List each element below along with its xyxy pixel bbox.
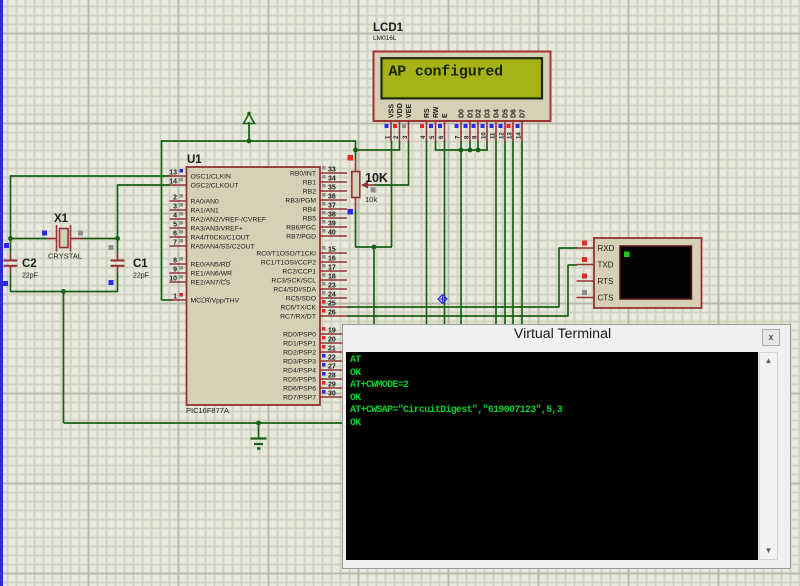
svg-text:14: 14 — [517, 132, 523, 139]
svg-text:37: 37 — [328, 203, 336, 210]
svg-text:5: 5 — [173, 222, 177, 229]
svg-text:D2: D2 — [476, 109, 483, 118]
svg-text:RB5: RB5 — [303, 215, 316, 222]
svg-text:25: 25 — [328, 301, 336, 308]
svg-text:RA0/AN0: RA0/AN0 — [191, 198, 220, 205]
svg-text:D5: D5 — [503, 109, 510, 118]
svg-text:RD3/PSP3: RD3/PSP3 — [283, 358, 316, 365]
svg-text:RB6/PGC: RB6/PGC — [286, 224, 316, 231]
svg-text:D4: D4 — [494, 109, 501, 118]
svg-text:C2: C2 — [22, 258, 37, 270]
svg-text:3: 3 — [173, 204, 177, 211]
svg-text:28: 28 — [328, 373, 336, 380]
svg-text:10: 10 — [482, 132, 488, 139]
svg-text:39: 39 — [328, 221, 336, 228]
svg-text:OSC2/CLKOUT: OSC2/CLKOUT — [191, 182, 239, 189]
svg-text:RB0/INT: RB0/INT — [290, 170, 316, 177]
svg-text:26: 26 — [328, 310, 336, 317]
svg-text:D3: D3 — [485, 109, 492, 118]
svg-text:E: E — [442, 113, 449, 118]
svg-text:18: 18 — [328, 274, 336, 281]
svg-text:RD0/PSP0: RD0/PSP0 — [283, 331, 316, 338]
svg-text:8: 8 — [173, 258, 177, 265]
svg-text:11: 11 — [491, 132, 497, 139]
svg-text:RB3/PGM: RB3/PGM — [285, 197, 316, 204]
svg-text:VSS: VSS — [389, 104, 396, 118]
svg-text:12: 12 — [500, 132, 506, 139]
svg-text:RA3/AN3/VREF+: RA3/AN3/VREF+ — [191, 225, 243, 232]
svg-text:RC3/SCK/SCL: RC3/SCK/SCL — [271, 277, 316, 284]
svg-text:VEE: VEE — [406, 104, 413, 118]
svg-text:PIC16F877A: PIC16F877A — [186, 406, 229, 415]
svg-text:22: 22 — [328, 355, 336, 362]
svg-text:RC7/RX/DT: RC7/RX/DT — [280, 313, 316, 320]
svg-text:23: 23 — [328, 283, 336, 290]
svg-text:D1: D1 — [468, 109, 475, 118]
svg-text:VDD: VDD — [397, 103, 404, 118]
svg-text:RD1/PSP1: RD1/PSP1 — [283, 340, 316, 347]
svg-text:OSC1/CLKIN: OSC1/CLKIN — [191, 173, 232, 180]
svg-text:RC5/SDO: RC5/SDO — [286, 295, 316, 302]
svg-text:RC4/SDI/SDA: RC4/SDI/SDA — [273, 286, 316, 293]
svg-text:RA4/T0CKI/C1OUT: RA4/T0CKI/C1OUT — [191, 234, 250, 241]
svg-text:D7: D7 — [520, 109, 527, 118]
svg-text:RB7/PGD: RB7/PGD — [286, 233, 316, 240]
svg-text:13: 13 — [508, 132, 514, 139]
svg-text:RE0/AN5/RD: RE0/AN5/RD — [191, 261, 231, 268]
svg-text:X1: X1 — [54, 213, 69, 225]
svg-text:15: 15 — [328, 247, 336, 254]
svg-text:35: 35 — [328, 185, 336, 192]
svg-text:RC1/T1OSI/CCP2: RC1/T1OSI/CCP2 — [261, 259, 316, 266]
svg-text:17: 17 — [328, 265, 336, 272]
svg-text:33: 33 — [328, 167, 336, 174]
svg-text:RB1: RB1 — [303, 179, 316, 186]
svg-text:22pF: 22pF — [22, 273, 38, 280]
svg-text:34: 34 — [328, 176, 336, 183]
svg-text:1: 1 — [173, 294, 177, 301]
svg-text:9: 9 — [173, 267, 177, 274]
svg-text:D0: D0 — [459, 109, 466, 118]
svg-text:RA1/AN1: RA1/AN1 — [191, 207, 220, 214]
svg-text:AP configured: AP configured — [389, 64, 503, 81]
svg-text:20: 20 — [328, 337, 336, 344]
svg-text:2: 2 — [173, 195, 177, 202]
svg-text:6: 6 — [173, 231, 177, 238]
svg-text:RC2/CCP1: RC2/CCP1 — [282, 268, 316, 275]
svg-text:RS: RS — [424, 108, 431, 118]
svg-text:CTS: CTS — [598, 293, 614, 302]
svg-text:U1: U1 — [187, 154, 202, 166]
svg-text:21: 21 — [328, 346, 336, 353]
svg-text:10K: 10K — [365, 171, 388, 185]
svg-text:30: 30 — [328, 391, 336, 398]
svg-text:27: 27 — [328, 364, 336, 371]
svg-text:16: 16 — [328, 256, 336, 263]
svg-text:CRYSTAL: CRYSTAL — [48, 252, 82, 261]
svg-text:24: 24 — [328, 292, 336, 299]
svg-text:D6: D6 — [511, 109, 518, 118]
svg-text:10: 10 — [169, 276, 177, 283]
svg-text:LM016L: LM016L — [373, 35, 397, 42]
svg-text:40: 40 — [328, 230, 336, 237]
svg-text:RE1/AN6/WR: RE1/AN6/WR — [191, 270, 233, 277]
svg-text:38: 38 — [328, 212, 336, 219]
svg-text:36: 36 — [328, 194, 336, 201]
svg-text:29: 29 — [328, 382, 336, 389]
svg-text:RTS: RTS — [598, 277, 614, 286]
svg-text:RB2: RB2 — [303, 188, 316, 195]
svg-text:19: 19 — [328, 328, 336, 335]
svg-text:4: 4 — [173, 213, 177, 220]
svg-text:RW: RW — [433, 106, 440, 118]
svg-text:RD6/PSP6: RD6/PSP6 — [283, 385, 316, 392]
svg-text:RE2/AN7/CS: RE2/AN7/CS — [191, 279, 231, 286]
svg-text:RD2/PSP2: RD2/PSP2 — [283, 349, 316, 356]
svg-text:RC0/T1OSO/T1CKI: RC0/T1OSO/T1CKI — [256, 250, 316, 257]
svg-text:10k: 10k — [365, 195, 377, 204]
svg-text:14: 14 — [169, 179, 177, 186]
svg-text:RD7/PSP7: RD7/PSP7 — [283, 394, 316, 401]
svg-text:RD5/PSP5: RD5/PSP5 — [283, 376, 316, 383]
svg-text:22pF: 22pF — [133, 273, 149, 280]
svg-text:RD4/PSP4: RD4/PSP4 — [283, 367, 316, 374]
svg-text:C1: C1 — [133, 258, 148, 270]
svg-text:RA2/AN2/VREF-/CVREF: RA2/AN2/VREF-/CVREF — [191, 216, 267, 223]
svg-text:13: 13 — [169, 170, 177, 177]
svg-text:MCLR/Vpp/THV: MCLR/Vpp/THV — [191, 297, 240, 304]
svg-text:LCD1: LCD1 — [373, 22, 404, 34]
svg-text:TXD: TXD — [598, 260, 614, 269]
svg-text:RXD: RXD — [598, 244, 615, 253]
svg-text:RC6/TX/CK: RC6/TX/CK — [280, 304, 316, 311]
svg-text:RB4: RB4 — [303, 206, 316, 213]
svg-text:RA5/AN4/SS/C2OUT: RA5/AN4/SS/C2OUT — [191, 243, 255, 250]
svg-text:7: 7 — [173, 240, 177, 247]
